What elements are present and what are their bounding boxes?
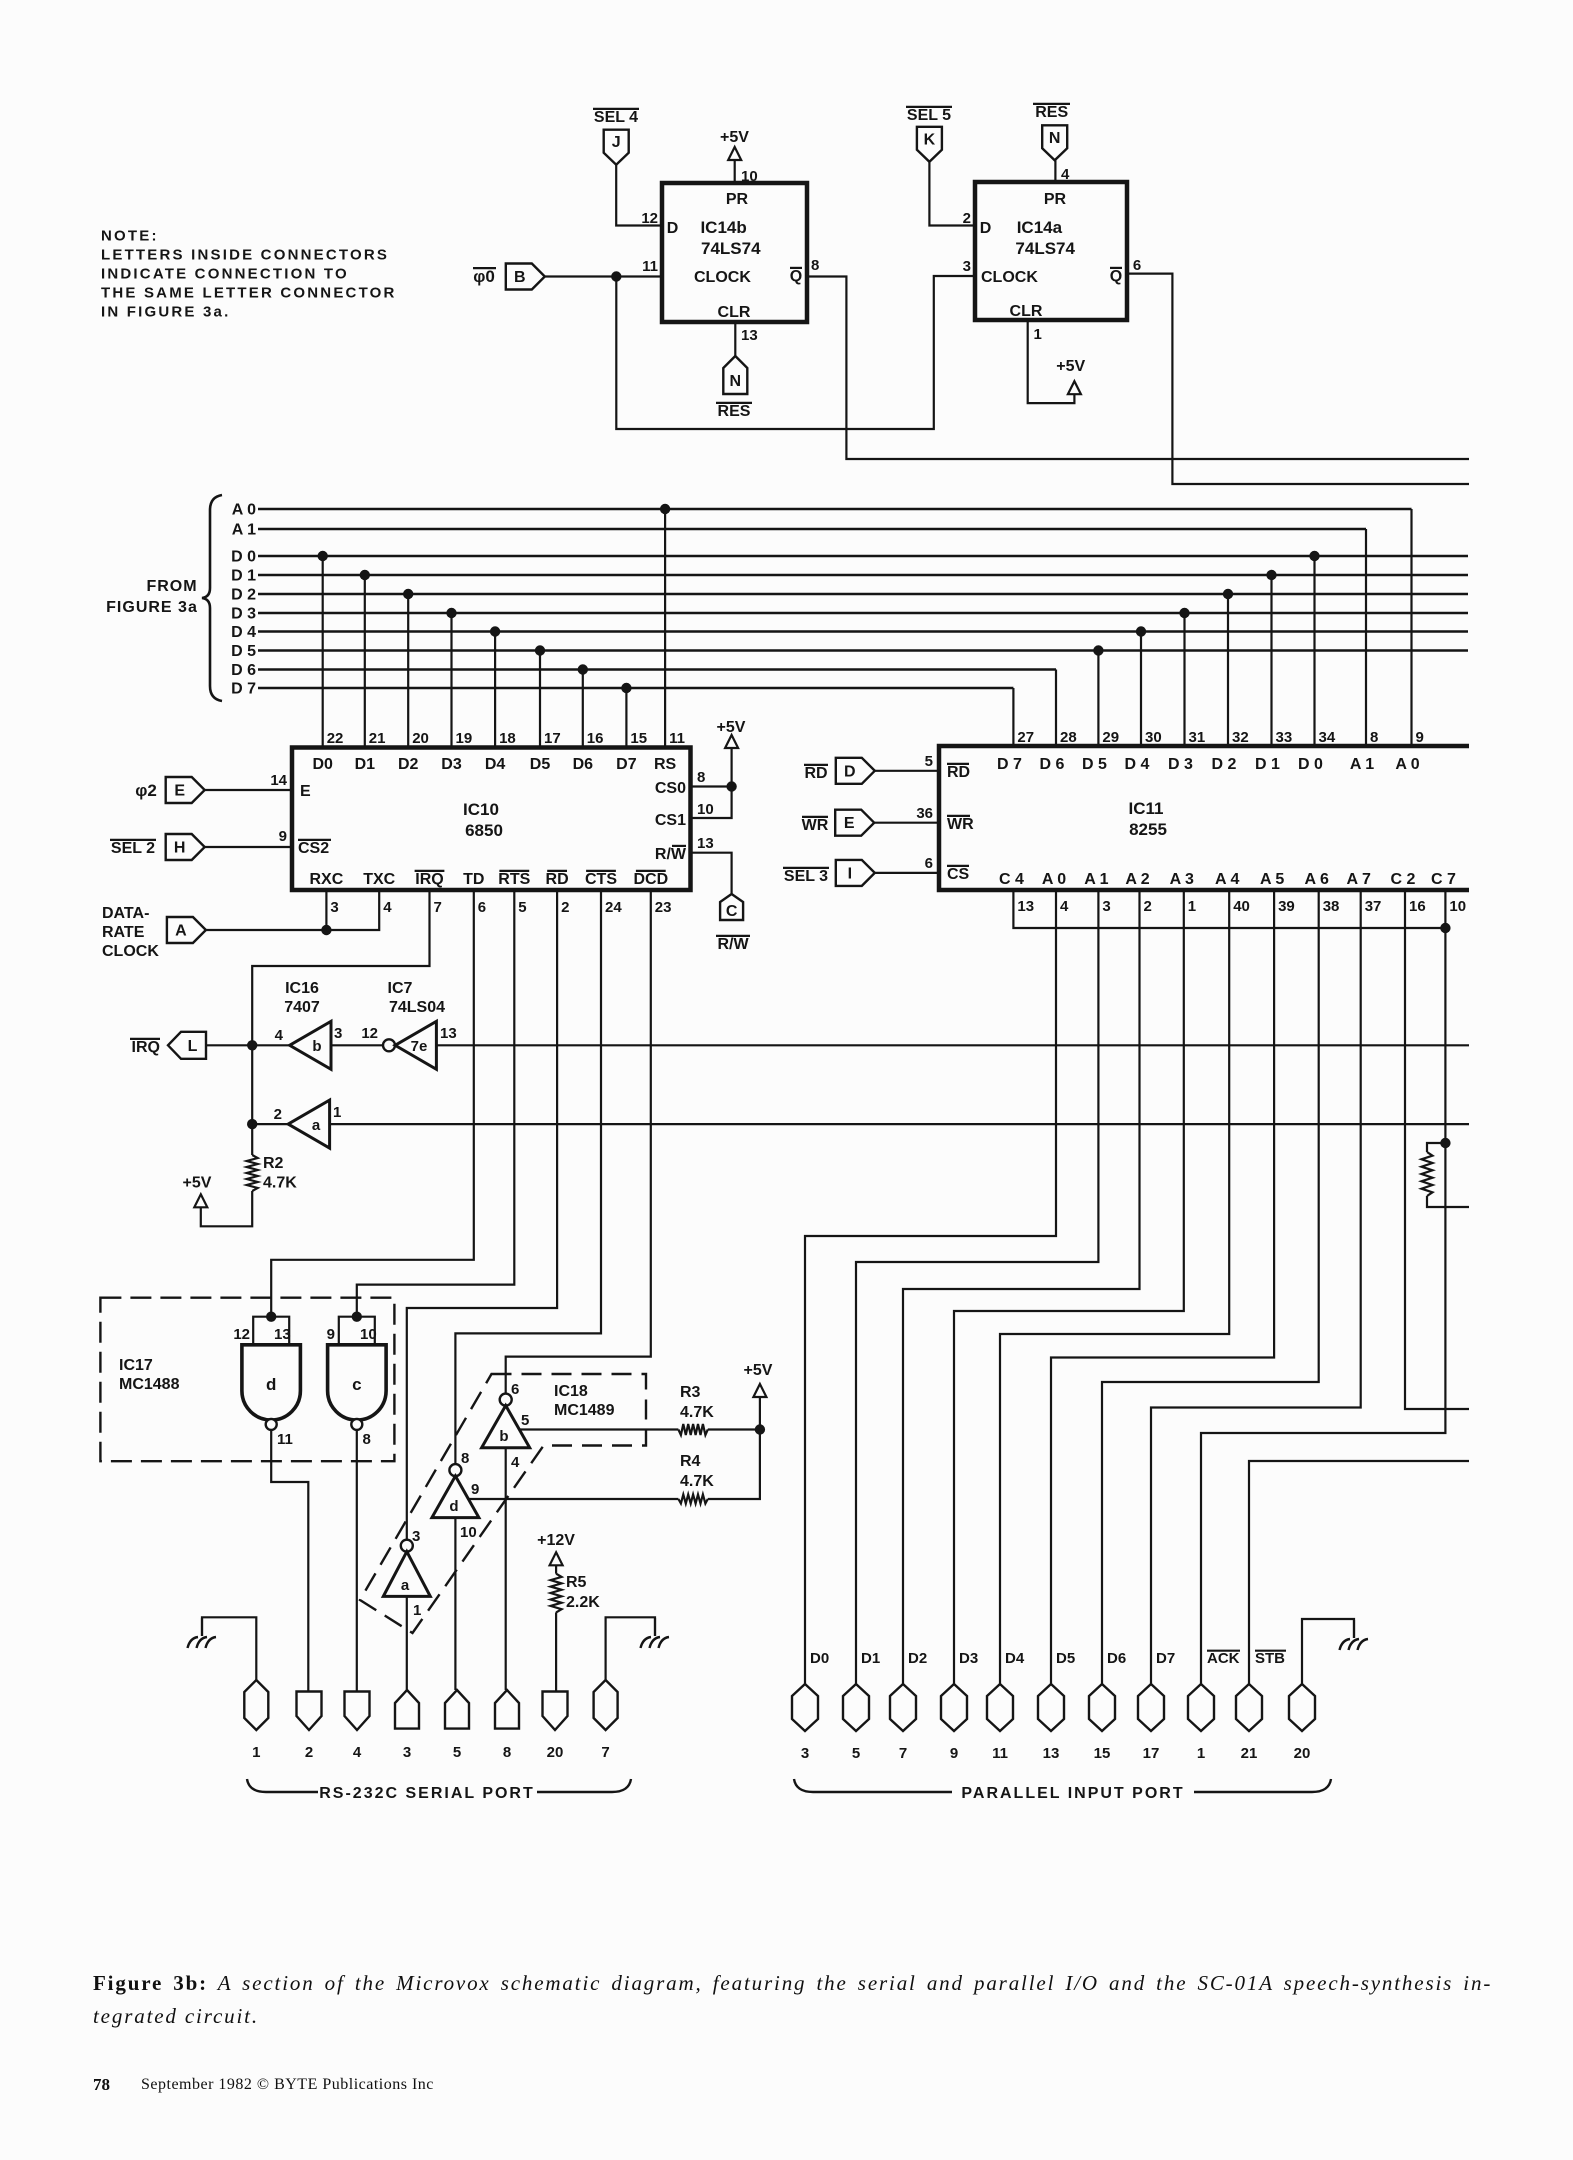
svg-text:D 0: D 0 xyxy=(1298,756,1323,773)
svg-text:9: 9 xyxy=(327,1326,335,1343)
svg-text:36: 36 xyxy=(916,805,933,822)
svg-text:A 0: A 0 xyxy=(1042,871,1066,888)
wire R5 to serial pin 20 xyxy=(555,1612,557,1691)
wire bus D0 tap to IC11 pin 34 xyxy=(1313,556,1315,746)
junction phi0 clock node xyxy=(611,271,621,281)
svg-text:7: 7 xyxy=(434,899,442,916)
svg-text:RTS: RTS xyxy=(498,871,530,888)
wire bus D4 tap to IC10 pin 18 xyxy=(494,632,496,748)
wire resistor bottom to page edge xyxy=(1427,1196,1469,1207)
svg-text:23: 23 xyxy=(655,899,672,916)
wire IC11 C4 pin 13 to C7 node xyxy=(1013,890,1445,928)
svg-text:TXC: TXC xyxy=(363,871,395,888)
power +5V arrow at IC10 CS0 xyxy=(725,735,738,748)
wire gate d output to serial pin 2 xyxy=(271,1430,308,1692)
wire IC10 R/W pin 13 to connector C xyxy=(691,853,732,894)
svg-text:21: 21 xyxy=(369,730,386,747)
wire +5V to R2 bottom xyxy=(201,1191,252,1226)
svg-text:RXC: RXC xyxy=(310,871,344,888)
svg-text:30: 30 xyxy=(1145,729,1162,746)
wire serial pin 1 to ground xyxy=(202,1617,256,1680)
svg-text:16: 16 xyxy=(1409,898,1426,915)
connector parallel pin 15 (hexagon) xyxy=(1089,1684,1115,1731)
wire gate d input to serial pin 5 xyxy=(454,1518,456,1690)
receiver IC18b MC1489 xyxy=(482,1406,530,1448)
ground at serial pin 7 xyxy=(654,1618,656,1636)
junction D5 bus tap at IC11 xyxy=(1093,645,1103,655)
wire bus D2 tap to IC10 pin 20 xyxy=(407,594,409,748)
connector parallel pin 13 (hexagon) xyxy=(1038,1684,1064,1731)
svg-text:4: 4 xyxy=(1060,898,1069,915)
svg-text:20: 20 xyxy=(1294,1745,1311,1762)
svg-text:9: 9 xyxy=(1416,729,1424,746)
net label DATA-RATE CLOCK xyxy=(102,905,159,960)
svg-text:N: N xyxy=(1049,130,1061,147)
svg-text:D3: D3 xyxy=(959,1650,978,1667)
wire gate b input to serial pin 8 xyxy=(505,1448,507,1690)
svg-text:D 1: D 1 xyxy=(1255,756,1280,773)
svg-text:A 1: A 1 xyxy=(232,522,256,539)
svg-text:PR: PR xyxy=(726,191,749,208)
svg-text:27: 27 xyxy=(1017,729,1034,746)
svg-text:PR: PR xyxy=(1044,191,1067,208)
wire bus D3 tap to IC10 pin 19 xyxy=(450,613,452,748)
svg-text:4.7K: 4.7K xyxy=(263,1175,297,1192)
svg-text:ACK: ACK xyxy=(1207,1650,1240,1667)
svg-text:28: 28 xyxy=(1060,729,1077,746)
svg-text:N: N xyxy=(730,373,742,390)
svg-text:3: 3 xyxy=(334,1025,342,1042)
svg-text:IC7: IC7 xyxy=(388,980,413,997)
wire SEL3 I to IC11 pin 6 xyxy=(875,872,939,874)
svg-text:H: H xyxy=(174,840,186,857)
wire SEL5 K to IC14a D pin 2 xyxy=(929,162,975,226)
svg-text:CLOCK: CLOCK xyxy=(694,269,751,286)
wire IC11 A2 to parallel connector xyxy=(903,890,1140,1684)
wire IC11 A6 to parallel connector xyxy=(1102,890,1319,1684)
svg-text:20: 20 xyxy=(547,1744,564,1761)
wire IC10 IRQ pin 7 to node xyxy=(252,890,429,1155)
svg-text:33: 33 xyxy=(1276,729,1293,746)
svg-text:B: B xyxy=(514,269,526,286)
svg-text:IC10: IC10 xyxy=(463,800,499,819)
svg-text:L: L xyxy=(188,1038,198,1055)
connector H (SEL2) xyxy=(166,834,205,860)
svg-text:CLR: CLR xyxy=(1010,303,1043,320)
svg-text:MC1488: MC1488 xyxy=(119,1376,180,1393)
wire bus D3 tap to IC11 pin 31 xyxy=(1183,613,1185,746)
svg-text:A: A xyxy=(175,923,187,940)
svg-text:SEL 2: SEL 2 xyxy=(111,840,155,857)
svg-text:tegrated circuit.: tegrated circuit. xyxy=(93,2004,259,2028)
svg-text:FROM: FROM xyxy=(146,578,197,595)
svg-text:3: 3 xyxy=(330,899,338,916)
wire gate a input to serial pin 3 xyxy=(406,1596,408,1690)
svg-text:10: 10 xyxy=(460,1524,477,1541)
svg-text:1: 1 xyxy=(413,1602,421,1619)
junction D6 bus tap at IC10 xyxy=(578,664,588,674)
svg-text:A 0: A 0 xyxy=(1395,756,1419,773)
wire IC14b CLR pin 13 to RES N xyxy=(734,322,736,356)
junction D2 bus tap at IC10 xyxy=(403,589,413,599)
svg-text:13: 13 xyxy=(741,327,758,344)
junction CS0 CS1 +5V xyxy=(726,781,736,791)
svg-text:b: b xyxy=(499,1428,508,1445)
wire IC10 TXC pin 4 down xyxy=(326,890,379,930)
svg-text:D5: D5 xyxy=(530,756,551,773)
svg-text:IC16: IC16 xyxy=(285,980,319,997)
connector parallel pin 11 (hexagon) xyxy=(987,1684,1013,1731)
connector parallel pin 17 (hexagon) xyxy=(1138,1684,1164,1731)
connector parallel pin 20 (hexagon) xyxy=(1289,1684,1315,1731)
connector D (RD) xyxy=(836,758,875,784)
svg-text:9: 9 xyxy=(279,828,287,845)
junction A0 bus tap at IC10 xyxy=(660,504,670,514)
svg-text:A 2: A 2 xyxy=(1125,871,1149,888)
connector parallel pin 5 (hexagon) xyxy=(843,1684,869,1731)
svg-text:7407: 7407 xyxy=(284,999,320,1016)
wire IC11 A5 to parallel connector xyxy=(1051,890,1274,1684)
connector parallel pin 9 (hexagon) xyxy=(941,1684,967,1731)
wire bus D2 tap to IC11 pin 32 xyxy=(1227,594,1229,746)
svg-text:IC17: IC17 xyxy=(119,1357,153,1374)
svg-text:D: D xyxy=(844,763,856,780)
wire IC14b PR pin 10 to +5V xyxy=(734,160,736,183)
bus brace xyxy=(202,495,222,701)
wire R3 to +5V node xyxy=(708,1428,760,1430)
svg-text:E: E xyxy=(300,783,311,800)
svg-text:DATA-: DATA- xyxy=(102,905,149,922)
svg-text:September 1982 © BYTE Publicat: September 1982 © BYTE Publications Inc xyxy=(141,2076,434,2093)
svg-text:D6: D6 xyxy=(1107,1650,1126,1667)
svg-text:IRQ: IRQ xyxy=(415,871,443,888)
power +5V arrow at IC14a CLR xyxy=(1068,381,1081,394)
svg-text:5: 5 xyxy=(518,899,526,916)
svg-text:8: 8 xyxy=(811,257,819,274)
svg-text:SEL 4: SEL 4 xyxy=(594,109,638,126)
svg-text:8: 8 xyxy=(363,1431,371,1448)
junction RTS at gate c inputs xyxy=(352,1312,362,1322)
svg-text:D 3: D 3 xyxy=(231,606,256,623)
IC14a 74LS74 flip-flop body xyxy=(975,182,1127,320)
svg-text:C 4: C 4 xyxy=(999,871,1024,888)
svg-text:11: 11 xyxy=(669,730,685,747)
svg-text:R5: R5 xyxy=(566,1574,587,1591)
wire bus D5 tap to IC10 pin 17 xyxy=(539,651,541,748)
svg-text:RD: RD xyxy=(947,764,970,781)
svg-text:D 5: D 5 xyxy=(1082,756,1107,773)
svg-text:1: 1 xyxy=(1188,898,1196,915)
wire IC10 CTS pin 24 to gate d output xyxy=(455,890,601,1464)
connector I (SEL3) xyxy=(836,860,875,886)
junction D0 bus tap at IC11 xyxy=(1309,551,1319,561)
svg-text:c: c xyxy=(352,1375,361,1394)
svg-text:18: 18 xyxy=(499,730,516,747)
svg-text:6850: 6850 xyxy=(465,821,503,840)
junction IRQ node at buffer b xyxy=(247,1040,257,1050)
wire IC11 A3 to parallel connector xyxy=(954,890,1184,1684)
wire bus line D2 xyxy=(258,593,1468,596)
buffer IC16a 7407 xyxy=(288,1100,329,1148)
svg-text:19: 19 xyxy=(456,730,473,747)
inverter IC7 7e 74LS04 xyxy=(395,1021,436,1069)
wire bus line D3 xyxy=(258,612,1468,615)
svg-text:D1: D1 xyxy=(861,1650,880,1667)
svg-text:+12V: +12V xyxy=(537,1532,575,1549)
gate d18 output bubble xyxy=(449,1464,461,1476)
wire IC10 RD pin 2 to gate a output xyxy=(407,890,557,1540)
IC17 MC1488 dashed outline xyxy=(100,1298,394,1462)
svg-text:10: 10 xyxy=(1449,898,1466,915)
svg-text:2: 2 xyxy=(305,1744,313,1761)
svg-text:D: D xyxy=(667,220,679,237)
wire IC14a Q pin 6 to right bus xyxy=(1127,274,1469,484)
svg-text:FIGURE 3a: FIGURE 3a xyxy=(106,599,198,616)
wire gate c output to serial pin 4 xyxy=(356,1430,358,1692)
svg-text:D 5: D 5 xyxy=(231,643,256,660)
junction D5 bus tap at IC10 xyxy=(535,645,545,655)
svg-text:SEL 5: SEL 5 xyxy=(907,107,951,124)
parallel input port brace xyxy=(794,1779,952,1792)
wire RD D to IC11 pin 5 xyxy=(875,770,939,772)
IC10 6850 ACIA body xyxy=(292,748,691,891)
svg-text:a: a xyxy=(401,1577,410,1594)
connector RS-232 pin 2 xyxy=(297,1692,322,1731)
gate c input stubs xyxy=(339,1317,375,1345)
svg-text:12: 12 xyxy=(361,1025,378,1042)
connector RS-232 pin 8 xyxy=(495,1690,519,1729)
receiver IC18d MC1489 xyxy=(432,1476,479,1518)
svg-text:LETTERS INSIDE CONNECTORS: LETTERS INSIDE CONNECTORS xyxy=(101,247,389,264)
svg-text:C 2: C 2 xyxy=(1391,871,1416,888)
svg-text:Q: Q xyxy=(1110,268,1122,285)
svg-text:9: 9 xyxy=(950,1745,958,1762)
svg-text:d: d xyxy=(449,1498,458,1515)
svg-text:K: K xyxy=(924,131,936,148)
wire bus line A0 xyxy=(258,508,1412,511)
svg-text:4.7K: 4.7K xyxy=(680,1404,714,1421)
svg-text:12: 12 xyxy=(641,210,658,227)
junction R3 R4 +5V xyxy=(755,1424,765,1434)
connector E (WR) xyxy=(835,810,874,836)
svg-text:31: 31 xyxy=(1189,729,1206,746)
svg-text:8: 8 xyxy=(503,1744,511,1761)
svg-text:R/W: R/W xyxy=(717,936,749,953)
svg-text:40: 40 xyxy=(1233,898,1250,915)
svg-text:Q: Q xyxy=(790,268,802,285)
svg-text:34: 34 xyxy=(1319,729,1336,746)
svg-text:6: 6 xyxy=(925,855,933,872)
junction D1 bus tap at IC10 xyxy=(360,570,370,580)
svg-text:8: 8 xyxy=(697,769,705,786)
svg-text:CS0: CS0 xyxy=(655,780,686,797)
svg-text:PARALLEL INPUT PORT: PARALLEL INPUT PORT xyxy=(961,1785,1184,1802)
gate IC17d MC1488 xyxy=(242,1345,301,1420)
svg-text:CLOCK: CLOCK xyxy=(981,269,1038,286)
svg-text:A 1: A 1 xyxy=(1350,756,1374,773)
svg-text:A 4: A 4 xyxy=(1215,871,1239,888)
svg-text:RES: RES xyxy=(1035,104,1068,121)
svg-text:+5V: +5V xyxy=(744,1362,773,1379)
svg-text:20: 20 xyxy=(412,730,429,747)
svg-text:R2: R2 xyxy=(263,1155,284,1172)
wire bus line D4 xyxy=(258,630,1468,633)
svg-text:A 1: A 1 xyxy=(1084,871,1108,888)
svg-text:INDICATE CONNECTION TO: INDICATE CONNECTION TO xyxy=(101,266,349,283)
svg-text:J: J xyxy=(612,134,621,151)
svg-text:2: 2 xyxy=(274,1106,282,1123)
svg-text:10: 10 xyxy=(741,168,758,185)
wire bus D4 tap to IC11 pin 30 xyxy=(1140,632,1142,747)
svg-text:9: 9 xyxy=(471,1481,479,1498)
svg-text:D4: D4 xyxy=(485,756,506,773)
svg-text:3: 3 xyxy=(1102,898,1110,915)
svg-text:I: I xyxy=(848,865,852,882)
svg-text:2: 2 xyxy=(1144,898,1152,915)
wire SEL2 H to IC10 pin 9 xyxy=(205,846,292,848)
wire IC10 CS1 pin 10 xyxy=(691,787,732,819)
connector parallel pin 1 (hexagon) xyxy=(1188,1684,1214,1731)
svg-text:D2: D2 xyxy=(398,756,419,773)
svg-text:11: 11 xyxy=(992,1745,1008,1762)
svg-text:6: 6 xyxy=(478,899,486,916)
junction IRQ node at buffer a xyxy=(247,1119,257,1129)
gate b output bubble xyxy=(500,1394,512,1406)
svg-text:39: 39 xyxy=(1278,898,1295,915)
svg-text:D3: D3 xyxy=(441,756,462,773)
svg-text:RES: RES xyxy=(718,403,751,420)
wire phi0 node to IC14a CLOCK pin 3 xyxy=(616,276,975,429)
svg-text:2: 2 xyxy=(561,899,569,916)
svg-text:D 7: D 7 xyxy=(997,756,1022,773)
svg-text:RATE: RATE xyxy=(102,924,145,941)
power +5V arrow at R2 xyxy=(194,1194,207,1207)
svg-text:D0: D0 xyxy=(312,756,333,773)
svg-text:φ0: φ0 xyxy=(473,267,495,286)
wire +5V arrow to node xyxy=(759,1397,761,1430)
svg-text:15: 15 xyxy=(1094,1745,1111,1762)
svg-text:A 7: A 7 xyxy=(1347,871,1371,888)
connector A (DATA-RATE CLOCK) xyxy=(167,917,206,943)
RS-232C serial port brace xyxy=(247,1779,318,1792)
svg-text:4: 4 xyxy=(275,1027,284,1044)
svg-text:RS: RS xyxy=(654,756,677,773)
svg-text:NOTE:: NOTE: xyxy=(101,228,159,245)
svg-text:b: b xyxy=(312,1038,321,1055)
svg-text:11: 11 xyxy=(277,1431,293,1448)
svg-text:A 5: A 5 xyxy=(1260,871,1284,888)
svg-text:13: 13 xyxy=(274,1326,291,1343)
svg-text:+5V: +5V xyxy=(720,129,749,146)
svg-text:4: 4 xyxy=(511,1454,520,1471)
svg-text:5: 5 xyxy=(852,1745,860,1762)
svg-text:74LS74: 74LS74 xyxy=(1015,239,1075,258)
svg-text:D 0: D 0 xyxy=(231,549,256,566)
svg-text:d: d xyxy=(266,1375,276,1394)
inverter bubble 7e output xyxy=(383,1039,395,1051)
wire bus D6 tap to IC10 pin 16 xyxy=(582,670,584,748)
svg-text:D 3: D 3 xyxy=(1168,756,1193,773)
junction D0 bus tap at IC10 xyxy=(318,551,328,561)
wire IC11 A0 to parallel connector xyxy=(805,890,1056,1684)
wire bus line A1 xyxy=(258,528,1366,531)
connector RS-232 pin 20 xyxy=(543,1692,568,1731)
svg-text:1: 1 xyxy=(252,1744,260,1761)
wire IC10 RXC pin 3 down xyxy=(325,890,327,930)
svg-text:D 1: D 1 xyxy=(231,568,256,585)
resistor R4 4.7K xyxy=(678,1495,707,1504)
svg-text:IN FIGURE 3a.: IN FIGURE 3a. xyxy=(101,304,230,321)
wire A to RXC/TXC node xyxy=(206,929,327,931)
svg-text:C 7: C 7 xyxy=(1431,871,1456,888)
wire IC14b Q pin 8 to right bus xyxy=(807,277,1469,460)
wire +12V to R5 xyxy=(555,1565,557,1573)
svg-text:29: 29 xyxy=(1102,729,1119,746)
svg-text:13: 13 xyxy=(1017,898,1034,915)
svg-text:22: 22 xyxy=(327,730,344,747)
svg-text:a: a xyxy=(312,1117,321,1134)
junction D4 bus tap at IC11 xyxy=(1136,626,1146,636)
svg-text:12: 12 xyxy=(233,1326,250,1343)
resistor R2 4.7K xyxy=(247,1155,258,1191)
svg-text:IRQ: IRQ xyxy=(132,1039,160,1056)
svg-text:D2: D2 xyxy=(908,1650,927,1667)
wire IC10 RTS pin 5 to gate c xyxy=(357,890,515,1317)
IC18 MC1489 dashed outline xyxy=(360,1374,646,1633)
svg-text:3: 3 xyxy=(403,1744,411,1761)
wire IC10 TD pin 6 to gate d xyxy=(271,890,474,1317)
IC14b 74LS74 flip-flop body xyxy=(662,183,807,322)
wire bus A0 tap to IC11 pin 9 xyxy=(1410,509,1412,746)
ground at serial pin 1 xyxy=(201,1618,203,1636)
wire phi2 E to IC10 pin 14 xyxy=(205,789,292,791)
wire SEL4 J to IC14b D pin 12 xyxy=(616,165,662,226)
connector RS-232 pin 3 xyxy=(395,1690,419,1729)
svg-text:D 6: D 6 xyxy=(1040,756,1065,773)
wire R4 to +5V node xyxy=(708,1430,760,1500)
svg-text:+5V: +5V xyxy=(1056,358,1085,375)
gate IC17c MC1488 xyxy=(328,1345,387,1420)
connector parallel pin 3 (hexagon) xyxy=(792,1684,818,1731)
wire phi0 B to IC14b CLOCK pin 11 xyxy=(545,275,662,277)
connector C (R/W) xyxy=(720,894,743,920)
svg-text:D: D xyxy=(980,220,992,237)
svg-text:D7: D7 xyxy=(616,756,637,773)
svg-text:R/W: R/W xyxy=(655,846,687,863)
svg-text:1: 1 xyxy=(1034,326,1042,343)
svg-text:E: E xyxy=(844,815,855,832)
svg-text:74LS04: 74LS04 xyxy=(389,999,445,1016)
wire bus D1 tap to IC10 pin 21 xyxy=(364,575,366,748)
svg-text:2: 2 xyxy=(963,210,971,227)
connector parallel pin 21 (hexagon) xyxy=(1236,1684,1262,1731)
wire IC11 C2 pin 16 to page edge xyxy=(1405,890,1469,1409)
svg-text:D 2: D 2 xyxy=(1212,756,1237,773)
svg-text:4.7K: 4.7K xyxy=(680,1473,714,1490)
svg-text:2.2K: 2.2K xyxy=(566,1594,600,1611)
gate c output bubble xyxy=(351,1419,362,1430)
svg-text:8: 8 xyxy=(461,1450,469,1467)
svg-text:10: 10 xyxy=(360,1326,377,1343)
svg-text:6: 6 xyxy=(511,1381,519,1398)
svg-text:D 4: D 4 xyxy=(1125,756,1150,773)
junction TD at gate d inputs xyxy=(266,1312,276,1322)
svg-text:DCD: DCD xyxy=(633,871,668,888)
wire IC11 A7 to parallel connector xyxy=(1151,890,1361,1684)
svg-text:+5V: +5V xyxy=(183,1175,212,1192)
connector RS-232 pin 5 xyxy=(445,1690,469,1729)
svg-text:13: 13 xyxy=(440,1025,457,1042)
